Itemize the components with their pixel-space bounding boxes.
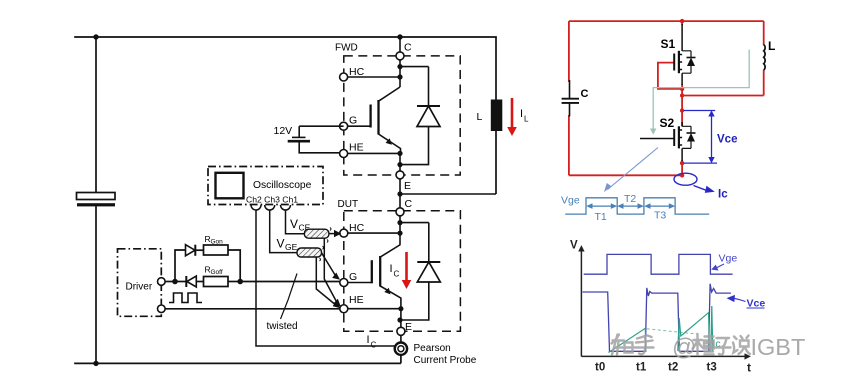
- node diode bottom DUT: [397, 317, 402, 322]
- wire red S2 emitter down: [681, 160, 683, 176]
- probe block VGE (hatched): [297, 248, 322, 257]
- wire Rgon to junction right: [228, 250, 240, 282]
- wire collector DUT: [399, 216, 401, 245]
- wire collector FWD: [399, 60, 401, 87]
- svg-text:V: V: [277, 237, 285, 251]
- IGBT Q2 DUT collector diagonal: [380, 245, 400, 258]
- Vce measure ticks: [684, 111, 717, 164]
- resistor R_Gon: [204, 245, 229, 255]
- svg-text:C: C: [404, 42, 412, 54]
- trace Ic ramp1: [609, 328, 646, 352]
- battery 12V: [288, 126, 344, 153]
- wire midpoint to inductor: [400, 193, 496, 195]
- node junction node C top: [397, 34, 402, 39]
- capacitor C red circuit: [562, 80, 579, 117]
- Pearson current probe: [395, 343, 407, 364]
- wire gate twisted to G DUT: [240, 281, 340, 283]
- axis t horizontal: [581, 355, 745, 357]
- FWD dashed box: [344, 56, 460, 175]
- terminal G DUT: [340, 279, 348, 287]
- node HC FWD: [397, 74, 402, 79]
- svg-text:C: C: [405, 198, 413, 210]
- wire red bottom: [569, 174, 681, 176]
- T1 measure arrow: [589, 205, 614, 207]
- terminal driver emitter out: [158, 305, 166, 313]
- wire red S1 gate loop: [658, 63, 682, 89]
- svg-text:Ic: Ic: [718, 189, 728, 201]
- trace Ic ramp2 with spikes: [678, 306, 713, 352]
- svg-text:t: t: [747, 361, 751, 375]
- svg-text:S1: S1: [661, 37, 676, 51]
- trace Ic dashed decay: [647, 329, 697, 334]
- pulse waveform glyph: [169, 293, 202, 303]
- svg-text:HE: HE: [349, 294, 364, 306]
- wire red top: [569, 20, 764, 22]
- svg-text:G: G: [349, 115, 357, 127]
- terminal driver gate out: [158, 278, 166, 286]
- arrow red I_C DUT: [405, 252, 408, 281]
- svg-text:S2: S2: [660, 116, 675, 130]
- terminal Ch2: [251, 205, 261, 210]
- wire Ch3 to VGE probe: [270, 210, 297, 253]
- svg-text:Goff: Goff: [211, 269, 223, 276]
- wire driver to junction: [165, 281, 175, 283]
- diode D-DUT top wire: [400, 222, 429, 224]
- terminal G FWD: [340, 122, 348, 130]
- svg-text:L: L: [768, 39, 775, 53]
- node gate drive junction left: [172, 279, 178, 285]
- terminal HC FWD: [340, 73, 348, 81]
- node midpoint: [397, 191, 402, 196]
- IGBT Q1 gate bar: [369, 105, 371, 128]
- probe block VCE (hatched): [304, 229, 329, 238]
- svg-text:G: G: [349, 271, 357, 283]
- node diode top FWD: [397, 64, 402, 69]
- oscilloscope screen: [216, 173, 244, 199]
- node gate drive junction right: [237, 279, 243, 285]
- IGBT Q2 emitter arrow: [384, 287, 392, 294]
- wire E to midnode: [399, 179, 401, 208]
- svg-text:T2: T2: [624, 193, 636, 205]
- T2 measure arrow: [620, 205, 641, 207]
- wire emitter twisted to HE DUT: [165, 308, 340, 310]
- svg-text:FWD: FWD: [335, 43, 358, 54]
- wire emitter to E DUT: [400, 309, 402, 328]
- node HC DUT: [397, 231, 402, 236]
- capacitor C_dc: [77, 193, 116, 200]
- diode D-FWD top wire: [400, 66, 429, 68]
- svg-text:DUT: DUT: [338, 199, 359, 210]
- node junction top-left: [93, 34, 98, 39]
- wire red left rail lower: [568, 115, 570, 175]
- transistor S1: [674, 24, 695, 85]
- svg-text:C: C: [581, 88, 589, 100]
- svg-text:Vge: Vge: [719, 253, 738, 265]
- svg-text:I: I: [390, 263, 393, 275]
- IGBT Q1 emitter diagonal: [379, 134, 401, 153]
- wire HE FWD: [348, 152, 400, 154]
- diode D-FWD body: [428, 67, 430, 106]
- probe clip marks: [320, 228, 332, 262]
- svg-text:Vge: Vge: [561, 195, 580, 207]
- diode D_off: [187, 276, 197, 287]
- wire Ch2 to current probe: [256, 210, 395, 346]
- terminal C DUT: [396, 208, 404, 216]
- inductor L load: [491, 37, 503, 194]
- VCE probe arrow to HC: [329, 233, 336, 235]
- svg-text:Ch2 Ch3 Ch1: Ch2 Ch3 Ch1: [246, 195, 298, 205]
- VGE probe lead to G: [322, 253, 337, 277]
- node emitter DUT: [398, 306, 403, 311]
- probe ellipse blue: [674, 173, 697, 185]
- svg-text:HE: HE: [349, 142, 364, 154]
- wire left DC rail lower: [95, 207, 97, 364]
- wire HC FWD: [348, 76, 400, 78]
- svg-text:t0: t0: [595, 362, 605, 374]
- svg-text:C: C: [371, 341, 377, 350]
- watermark zhihu: [612, 334, 751, 355]
- svg-text:Gon: Gon: [211, 239, 224, 246]
- terminal C FWD: [396, 52, 404, 60]
- wire HE DUT: [348, 308, 401, 310]
- svg-text:E: E: [405, 321, 412, 333]
- svg-text:C: C: [394, 270, 400, 279]
- svg-text:GE: GE: [285, 242, 298, 252]
- wire emitter to E FWD: [399, 153, 401, 171]
- Vge pulse waveform: [565, 198, 709, 214]
- wire red S1 emitter to mid: [681, 84, 683, 126]
- wire bottom DC- bus: [75, 362, 400, 364]
- svg-text:I: I: [520, 108, 523, 120]
- svg-text:V: V: [570, 240, 578, 252]
- wire top DC+ bus: [75, 36, 496, 38]
- IGBT Q1 gate wire: [348, 125, 371, 127]
- IGBT Q2 emitter diagonal: [380, 286, 401, 309]
- node junction bottom-left: [93, 361, 98, 366]
- terminal E DUT: [397, 327, 405, 335]
- svg-text:I: I: [367, 334, 370, 346]
- IGBT Q2 body bar: [379, 256, 381, 287]
- T3 measure arrow: [647, 205, 672, 207]
- wire bottom branch to diode: [175, 281, 186, 283]
- svg-text:@: @: [672, 334, 696, 361]
- Ic arrow blue: [694, 186, 709, 192]
- diode D-DUT body: [428, 223, 430, 262]
- Vge timing diagram: [565, 198, 709, 214]
- trace Vce plot: [583, 284, 731, 352]
- IGBT Q1 body bar: [377, 100, 379, 135]
- resistor R_Goff: [204, 277, 229, 287]
- terminal E FWD: [396, 171, 404, 179]
- wire red mid to L: [682, 95, 764, 97]
- svg-text:t2: t2: [668, 362, 678, 374]
- svg-text:Driver: Driver: [126, 282, 153, 293]
- IGBT Q1 FWD collector diagonal: [379, 87, 401, 101]
- svg-text:T3: T3: [654, 210, 666, 222]
- svg-text:twisted: twisted: [267, 321, 298, 332]
- svg-text:HC: HC: [349, 66, 365, 78]
- wire red S1 drop: [681, 21, 683, 25]
- VCE probe lead to HE: [324, 239, 337, 304]
- wire red L rail: [763, 21, 765, 45]
- wire C drop FWD: [399, 37, 401, 52]
- teal callout from L to S2 gate: [653, 50, 749, 130]
- terminal Ch3: [265, 205, 275, 210]
- terminal Ch1: [281, 205, 291, 210]
- svg-text:12V: 12V: [274, 125, 293, 137]
- svg-text:Oscilloscope: Oscilloscope: [253, 180, 312, 191]
- arrow red I_L: [511, 98, 514, 128]
- trace Vge plot: [584, 254, 733, 274]
- wire S2 gate lead: [640, 138, 674, 140]
- svg-text:T1: T1: [595, 211, 607, 223]
- inductor L coil red circuit: [764, 45, 765, 71]
- oscilloscope dash-dot box: [208, 167, 323, 205]
- wire red left rail upper: [568, 21, 570, 82]
- wire Ch1 to VCE probe: [286, 210, 305, 234]
- svg-text:E: E: [404, 180, 411, 192]
- terminal HE DUT: [340, 305, 348, 313]
- svg-text:Pearson: Pearson: [414, 343, 451, 354]
- node diode bottom FWD: [397, 162, 402, 167]
- svg-text:Vce: Vce: [717, 134, 737, 146]
- twisted callout line: [281, 274, 298, 320]
- IGBT Q2 gate wire: [348, 282, 372, 284]
- wire E to probe: [400, 335, 402, 342]
- node diode top DUT: [397, 220, 402, 225]
- diode D_on: [186, 245, 196, 256]
- svg-text:t3: t3: [707, 362, 717, 374]
- VGE probe lead to HE: [316, 257, 337, 306]
- blue diagonal callout S2 to pulse: [608, 148, 659, 190]
- driver dash-dot box: [118, 249, 162, 316]
- transistor S2: [640, 122, 696, 161]
- svg-text:t1: t1: [636, 362, 647, 374]
- IGBT Q1 emitter arrow: [385, 138, 393, 145]
- svg-text:IGBT: IGBT: [751, 334, 806, 360]
- svg-text:Current Probe: Current Probe: [414, 355, 477, 366]
- node emitter FWD: [397, 151, 402, 156]
- svg-text:L: L: [524, 115, 529, 124]
- terminal HC DUT: [340, 229, 348, 237]
- svg-text:L: L: [477, 111, 483, 123]
- svg-text:HC: HC: [349, 222, 365, 234]
- svg-text:V: V: [290, 217, 298, 231]
- wire Rgoff to junction right: [228, 281, 240, 283]
- wire up branch Rgon: [175, 250, 186, 282]
- node red dots: [680, 19, 684, 178]
- wire left DC rail upper: [95, 37, 97, 192]
- IGBT Q2 gate bar: [371, 260, 373, 283]
- DUT dashed box: [344, 211, 461, 331]
- axis V vertical: [580, 251, 582, 357]
- wire HC DUT: [348, 232, 400, 234]
- terminal HE FWD: [340, 150, 348, 158]
